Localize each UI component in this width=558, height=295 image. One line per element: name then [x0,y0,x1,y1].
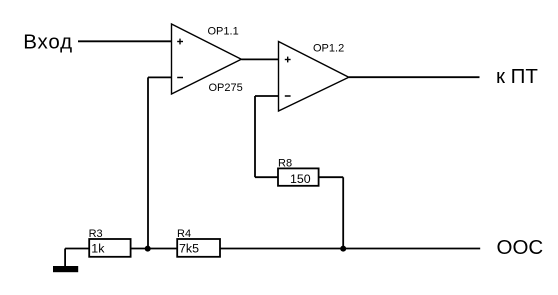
wire ground to R3 [65,248,89,250]
wire R8 down to feedback line [342,177,344,248]
svg-text:OP1.2: OP1.2 [313,43,344,55]
svg-text:к ПТ: к ПТ [496,65,538,88]
wire R4 to OOC [220,248,480,250]
junction node at R8 feedback [340,246,346,252]
ground symbol [53,266,78,272]
wire R3 to R4 [131,248,178,250]
wire ground riser [64,249,66,267]
wire op-amp2 minus input [255,95,279,97]
svg-text:OP1.1: OP1.1 [208,26,239,38]
svg-text:ООС: ООС [497,236,544,259]
svg-text:OP275: OP275 [209,82,243,94]
svg-text:R3: R3 [89,228,103,240]
wire op-amp2 feedback vertical [254,96,256,177]
op-amp U1 plus input symbol [177,39,183,45]
op-amp U1 OP1.1 triangle [172,24,242,94]
svg-text:R8: R8 [278,157,292,169]
resistor R3 box [89,239,130,257]
wire op-amp2 output [349,76,480,78]
resistor R4 box [177,239,220,257]
wire feedback vertical [147,77,149,248]
junction node at R3/R4 [145,246,151,252]
op-amp U2 minus input symbol [285,95,291,97]
svg-text:7k5: 7k5 [179,242,199,256]
svg-text:R4: R4 [177,228,191,240]
svg-text:150: 150 [290,172,311,186]
op-amp U2 OP1.2 triangle [279,42,349,112]
svg-text:1k: 1k [91,242,105,256]
wire R8 right [319,176,344,178]
svg-text:Вход: Вход [23,31,73,54]
resistor R8 box [278,168,319,185]
wire op-amp1 minus input [148,76,172,78]
wire to R8 left [255,176,278,178]
op-amp U2 plus input symbol [285,57,291,63]
op-amp U1 minus input symbol [177,77,183,79]
wire input to op-amp1 + [78,40,172,42]
wire op-amp1 output to op-amp2 + [241,58,278,60]
